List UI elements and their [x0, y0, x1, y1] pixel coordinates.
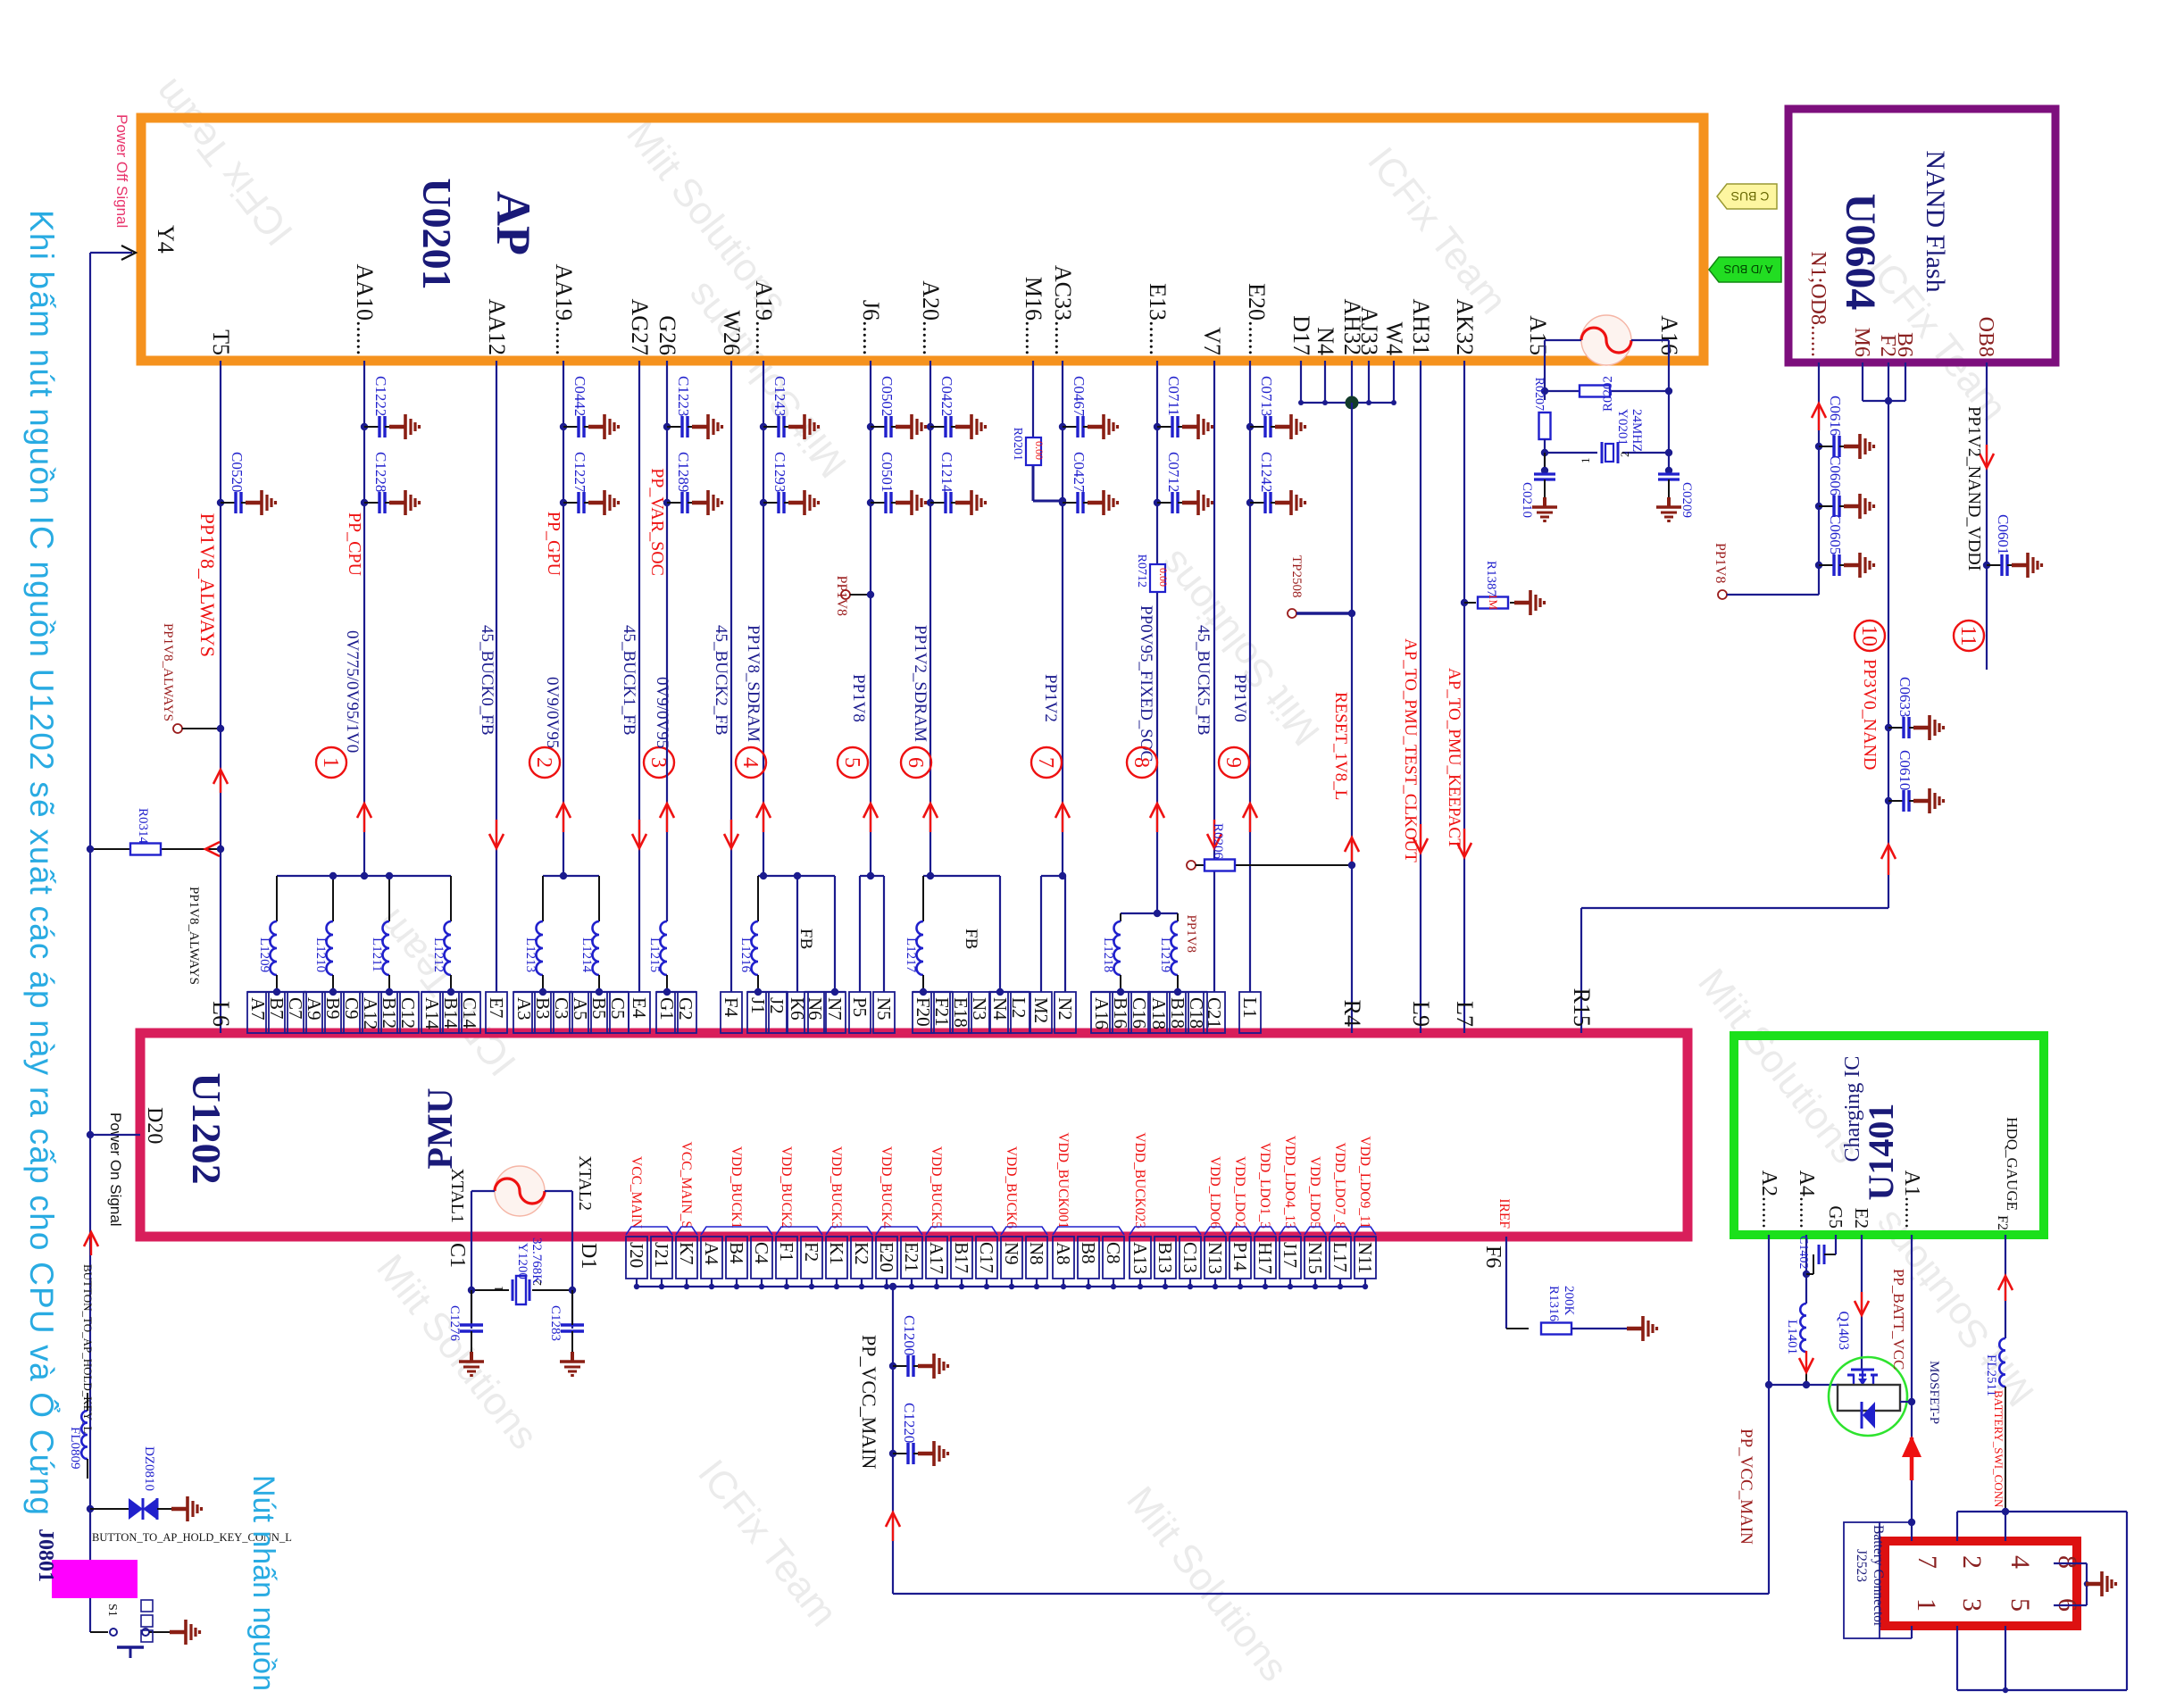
svg-text:L1210: L1210	[313, 937, 328, 972]
svg-text:L1209: L1209	[257, 937, 271, 972]
svg-text:C0210: C0210	[1520, 482, 1534, 518]
AP pin E13	[1145, 283, 1171, 355]
PMU pins A9 B9 C9	[304, 988, 363, 1033]
svg-text:VDD_LDO2: VDD_LDO2	[1232, 1156, 1247, 1229]
svg-text:A19......: A19......	[751, 280, 777, 355]
red arrow down	[1855, 1292, 1869, 1315]
capacitor C0601	[1983, 514, 2042, 578]
PMU pin XTAL1	[447, 1168, 467, 1223]
wire Power On Signal stub to PMU D20	[87, 1131, 140, 1138]
PMU pin R15	[1569, 988, 1595, 1027]
svg-text:F2: F2	[1995, 1215, 2010, 1230]
battery pin 3	[1957, 1598, 1987, 1612]
charger pin A2	[1757, 1171, 1780, 1229]
svg-text:PP1V2_NAND_VDDI: PP1V2_NAND_VDDI	[1964, 406, 1984, 571]
wire PP_VCC_MAIN rail	[637, 1286, 1365, 1287]
circled 1	[316, 747, 346, 778]
PMU pin L6	[208, 1001, 234, 1027]
red arrow	[1055, 804, 1070, 832]
svg-text:G5: G5	[1825, 1205, 1846, 1229]
node PP1V8 stub right	[1713, 543, 1819, 599]
svg-text:C1: C1	[446, 1243, 469, 1268]
svg-text:A15: A15	[1525, 315, 1551, 355]
svg-text:K1: K1	[826, 1242, 847, 1265]
svg-text:C1289: C1289	[675, 452, 692, 492]
red arrow	[1345, 837, 1359, 866]
PMU pin C4	[751, 1237, 772, 1289]
AP pin Y4	[153, 225, 179, 254]
PMU pin F2	[801, 1237, 822, 1289]
svg-text:R0201: R0201	[1011, 428, 1024, 461]
wire BUCK1 rail	[543, 872, 599, 879]
wire pin8 pin6 to ground	[2054, 1563, 2100, 1605]
svg-text:AG27: AG27	[627, 298, 653, 355]
label 0V9/0V95	[653, 677, 671, 748]
AP pin AK32	[1452, 298, 1478, 355]
svg-text:L1216: L1216	[738, 937, 753, 973]
AP pin N4	[1313, 327, 1338, 355]
svg-text:Y0201: Y0201	[1615, 409, 1630, 446]
svg-text:AP_TO_PMU_KEEPACT: AP_TO_PMU_KEEPACT	[1445, 668, 1463, 849]
capacitor C0610	[1885, 750, 1944, 813]
svg-text:3: 3	[1957, 1598, 1987, 1612]
inductor L1217	[904, 876, 923, 992]
svg-text:0V9/0V95: 0V9/0V95	[543, 677, 562, 748]
svg-text:C1222: C1222	[372, 376, 389, 416]
svg-text:PP1V8: PP1V8	[1713, 543, 1728, 583]
svg-text:L17: L17	[1330, 1242, 1351, 1272]
PMU pin M2	[1030, 992, 1052, 1033]
battery pin 1	[1912, 1598, 1941, 1612]
ground	[1514, 590, 1545, 615]
svg-text:K7: K7	[676, 1242, 697, 1265]
svg-text:E20: E20	[876, 1242, 897, 1272]
wire 45_BUCK5_FB V7 to C21	[1213, 361, 1215, 992]
svg-text:AJ33: AJ33	[1356, 306, 1382, 355]
svg-text:C0712: C0712	[1165, 452, 1182, 492]
wire PP1V2_SDRAM A20	[929, 361, 931, 876]
capacitor C0467	[1059, 376, 1118, 439]
svg-text:PP_GPU: PP_GPU	[544, 512, 563, 577]
PMU pin E7	[486, 992, 507, 1033]
wire A16	[1631, 340, 1669, 471]
svg-text:A17: A17	[926, 1242, 947, 1274]
svg-text:A4: A4	[701, 1242, 722, 1265]
red arrow	[1881, 845, 1896, 875]
svg-text:PP1V8_ALWAYS: PP1V8_ALWAYS	[196, 513, 219, 657]
svg-text:9: 9	[1221, 757, 1245, 768]
svg-text:4: 4	[738, 757, 762, 768]
red arrow	[213, 770, 228, 793]
svg-text:Q1403: Q1403	[1836, 1311, 1851, 1350]
circled 9	[1219, 747, 1249, 778]
PMU pin E18	[950, 992, 971, 1033]
label BATTERY_SWI_CONN	[1992, 1390, 2005, 1508]
svg-text:1: 1	[1912, 1598, 1941, 1612]
svg-text:2: 2	[1618, 452, 1631, 458]
svg-text:R0202: R0202	[1601, 376, 1615, 412]
svg-text:R1316: R1316	[1546, 1286, 1561, 1322]
PMU pin E20	[876, 1146, 897, 1289]
svg-text:Power On Signal: Power On Signal	[107, 1112, 124, 1227]
svg-text:L2: L2	[1008, 997, 1029, 1018]
inductor L1215	[647, 921, 667, 992]
svg-text:R0712: R0712	[1135, 554, 1148, 587]
PMU pin N9	[1001, 1146, 1022, 1289]
svg-text:TP2508: TP2508	[1289, 555, 1304, 598]
red arrow up	[1998, 1276, 2013, 1301]
charger pin F2 HDQ_GAUGE	[1995, 1117, 2021, 1230]
ground	[1656, 497, 1681, 521]
connector J2523 label box	[1844, 1522, 1912, 1638]
svg-text:PP1V8: PP1V8	[849, 674, 868, 722]
svg-text:AP_TO_PMU_TEST_CLKOUT: AP_TO_PMU_TEST_CLKOUT	[1401, 638, 1420, 862]
red arrow	[724, 820, 738, 848]
svg-text:45_BUCK0_FB: 45_BUCK0_FB	[478, 625, 496, 736]
svg-text:C1220: C1220	[901, 1403, 918, 1443]
AP pin AA19	[551, 263, 577, 355]
svg-text:C1228: C1228	[372, 452, 389, 492]
svg-text:PP0V95_FIXED_SOC: PP0V95_FIXED_SOC	[1137, 605, 1155, 762]
wire PP_VCC_MAIN drop	[889, 1235, 1769, 1594]
svg-text:C0605: C0605	[1827, 514, 1844, 554]
ground	[1532, 497, 1557, 521]
svg-text:FL0809: FL0809	[68, 1427, 82, 1470]
battery pin 7	[1913, 1555, 1942, 1569]
svg-text:RESET_1V8_L: RESET_1V8_L	[1331, 692, 1350, 800]
svg-text:Battery Connector: Battery Connector	[1871, 1525, 1886, 1628]
wire W4	[1393, 361, 1395, 403]
svg-text:VDD_LDO4_13: VDD_LDO4_13	[1282, 1136, 1297, 1229]
svg-text:R1387: R1387	[1484, 561, 1498, 597]
PMU pin A13	[1130, 1132, 1151, 1289]
PMU pins N6 N7	[804, 988, 846, 1033]
svg-text:G2: G2	[675, 997, 696, 1021]
svg-text:Khi bấm nút nguồn IC nguồn U12: Khi bấm nút nguồn IC nguồn U1202 sẽ xuất…	[23, 210, 62, 1516]
crystal circuit XTAL1 XTAL2 oscillator symbol	[471, 1166, 572, 1216]
red arrow	[1812, 404, 1826, 430]
AP pin W4	[1381, 321, 1407, 355]
wire D17	[1300, 361, 1302, 403]
red arrow	[1457, 829, 1471, 857]
PMU pin A4	[701, 1237, 722, 1289]
AP pin D17	[1288, 315, 1314, 355]
capacitor C0616	[1815, 396, 1874, 459]
svg-text:N2: N2	[1054, 997, 1076, 1021]
svg-text:E21: E21	[901, 1242, 922, 1272]
AP pin A20	[918, 280, 944, 355]
circled 3	[644, 747, 674, 778]
label 0V775/0V95/1V0	[343, 630, 362, 753]
PMU pin K6	[787, 992, 808, 1033]
svg-text:N9: N9	[1001, 1242, 1022, 1265]
switch S1 power button	[90, 1604, 184, 1658]
circled 2	[529, 747, 560, 778]
PMU pin A8	[1053, 1132, 1074, 1289]
label Nut nhan nguon	[246, 1475, 280, 1691]
wire AP_TO_PMU_KEEPACT AK32 to L7	[1463, 361, 1465, 1033]
svg-text:R0314: R0314	[136, 808, 150, 845]
svg-text:C0711: C0711	[1165, 376, 1182, 416]
red arrow	[632, 820, 646, 848]
svg-text:2: 2	[532, 757, 555, 768]
svg-text:4: 4	[2005, 1555, 2035, 1569]
label PP1V2_NAND_VDDI	[1964, 406, 1984, 571]
capacitor C0605	[1815, 514, 1874, 578]
wire P5-N5 rail	[860, 872, 884, 992]
svg-text:L6: L6	[208, 1001, 234, 1027]
svg-text:B17: B17	[951, 1242, 972, 1273]
wire mosfet to A1	[1900, 1398, 1915, 1405]
svg-text:C21: C21	[1204, 997, 1225, 1029]
battery pin 6	[2053, 1598, 2082, 1612]
svg-text:VDD_BUCK6: VDD_BUCK6	[1004, 1146, 1019, 1229]
svg-text:L7: L7	[1452, 1001, 1478, 1027]
wire PP1V8_SDRAM A19	[763, 361, 764, 876]
svg-text:OB8: OB8	[1974, 317, 1997, 357]
svg-text:T5: T5	[208, 329, 234, 355]
svg-text:VCC_MAIN: VCC_MAIN	[629, 1156, 644, 1229]
PMU pin K2	[851, 1237, 872, 1289]
ground	[459, 1352, 484, 1376]
svg-text:8: 8	[1130, 757, 1153, 768]
svg-text:D1: D1	[577, 1243, 600, 1269]
wire N4	[1324, 361, 1326, 403]
red arrow	[1150, 804, 1164, 832]
charger pin G5	[1825, 1205, 1846, 1229]
capacitor C0502	[867, 376, 926, 439]
svg-text:PP1V8_ALWAYS: PP1V8_ALWAYS	[161, 623, 175, 721]
svg-text:U0604: U0604	[1837, 194, 1884, 311]
AP pin W26	[719, 310, 745, 355]
label 45_BUCK0_FB	[478, 625, 496, 736]
capacitor C0209	[1658, 467, 1694, 518]
red arrow down	[1799, 1351, 1813, 1372]
inductor FL2511	[1984, 1338, 2005, 1512]
resistor R1387 1M to ground	[1461, 561, 1529, 611]
svg-text:M2: M2	[1030, 997, 1052, 1023]
svg-text:PP_VAR_SOC: PP_VAR_SOC	[647, 468, 667, 576]
label PP1V8_ALWAYS lower	[187, 887, 201, 985]
ground	[2086, 1571, 2116, 1596]
svg-text:E7: E7	[486, 997, 507, 1018]
label PP1V0	[1230, 674, 1249, 722]
NAND pin N1;OD8	[1806, 251, 1830, 357]
svg-text:C1402: C1402	[1796, 1236, 1810, 1269]
svg-text:5: 5	[840, 757, 863, 768]
wire F2 PP3V0_NAND	[1581, 362, 1892, 1033]
PMU pin K7	[676, 1142, 697, 1290]
circled 7	[1031, 747, 1062, 778]
svg-text:L1219: L1219	[1158, 937, 1172, 972]
svg-text:L1215: L1215	[647, 937, 662, 972]
svg-text:DZ0810: DZ0810	[142, 1446, 156, 1491]
svg-text:A4......: A4......	[1795, 1171, 1818, 1229]
svg-text:11: 11	[1956, 625, 1980, 646]
svg-text:PP1V8: PP1V8	[1184, 914, 1198, 953]
test point TP2508	[1288, 555, 1355, 618]
label PP0V95_FIXED_SOC	[1137, 605, 1155, 762]
crystal Y0201 24MHZ	[1541, 409, 1672, 463]
svg-text:FB: FB	[962, 929, 980, 949]
svg-text:M16......: M16......	[1021, 277, 1046, 355]
svg-text:C BUS: C BUS	[1731, 189, 1770, 204]
svg-text:J2523: J2523	[1854, 1549, 1869, 1582]
svg-text:BATTERY_SWI_CONN: BATTERY_SWI_CONN	[1992, 1390, 2005, 1508]
svg-text:0V9/0V95: 0V9/0V95	[653, 677, 671, 748]
capacitor C1223	[663, 376, 722, 439]
AP pin G26	[654, 315, 680, 355]
svg-text:N15: N15	[1305, 1242, 1326, 1274]
svg-text:C1227: C1227	[571, 452, 588, 493]
svg-text:C8: C8	[1103, 1242, 1124, 1264]
svg-text:E13......: E13......	[1145, 283, 1171, 355]
inductor FL0809	[68, 1393, 88, 1479]
IC U0201 AP application processor box	[141, 118, 1704, 361]
svg-text:VDD_LDO1_3: VDD_LDO1_3	[1257, 1143, 1272, 1229]
wire 45_BUCK1_FB AG27 to E4	[638, 361, 640, 992]
inductor L1219	[1158, 913, 1178, 992]
wire PP_VAR_SOC G26	[666, 361, 668, 921]
svg-text:F1: F1	[776, 1242, 797, 1262]
wire AP_TO_PMU_TEST_CLKOUT AH31 to L9	[1420, 361, 1421, 1033]
AP pin AC33	[1050, 265, 1076, 355]
svg-text:L1401: L1401	[1785, 1320, 1799, 1354]
svg-text:R0207: R0207	[1532, 378, 1546, 411]
svg-text:C0616: C0616	[1827, 396, 1844, 436]
svg-text:P5: P5	[849, 997, 871, 1017]
svg-text:VDD_LDO7_8: VDD_LDO7_8	[1332, 1143, 1347, 1229]
wire N7 drop	[834, 876, 836, 992]
svg-text:VCC_MAIN_S: VCC_MAIN_S	[679, 1142, 694, 1229]
wire A4 to L1401	[1803, 1235, 1810, 1304]
svg-text:32.768K: 32.768K	[529, 1237, 544, 1284]
svg-text:PP1V2: PP1V2	[1041, 674, 1060, 722]
svg-text:N13: N13	[1205, 1242, 1226, 1274]
capacitor C1293	[760, 452, 819, 515]
label Power On Signal	[107, 1112, 124, 1227]
svg-text:B8: B8	[1078, 1242, 1099, 1264]
svg-text:N1;OD8......: N1;OD8......	[1806, 251, 1830, 357]
svg-text:L1: L1	[1239, 997, 1261, 1018]
label power key chinese	[141, 1600, 153, 1642]
wire BUTTON_TO_AP_HOLD_KEY_L vertical	[89, 253, 91, 1632]
label PP_VCC_MAIN	[858, 1335, 880, 1469]
svg-text:PP1V0: PP1V0	[1230, 674, 1249, 722]
capacitor C0711	[1154, 376, 1213, 439]
resistor R0207	[1532, 378, 1551, 471]
svg-text:AA12: AA12	[484, 298, 510, 355]
svg-text:C1214: C1214	[938, 452, 955, 493]
svg-text:N5: N5	[873, 997, 895, 1021]
svg-text:MOSFET-P: MOSFET-P	[1927, 1361, 1941, 1424]
red arrow on button wire	[84, 1232, 98, 1255]
svg-text:PP1V2_SDRAM: PP1V2_SDRAM	[911, 625, 929, 742]
svg-text:PMU: PMU	[420, 1087, 460, 1169]
svg-text:C0501: C0501	[879, 452, 896, 492]
svg-text:1: 1	[493, 1286, 506, 1292]
svg-text:L1217: L1217	[904, 937, 918, 973]
ground	[171, 1496, 202, 1521]
svg-text:C1242: C1242	[1258, 452, 1275, 492]
AP pin E20	[1244, 283, 1270, 355]
label PP_VAR_SOC	[647, 468, 667, 576]
svg-text:K2: K2	[851, 1242, 872, 1265]
svg-text:C16: C16	[1129, 997, 1150, 1029]
capacitor C1228	[361, 452, 420, 515]
svg-text:L1213: L1213	[523, 937, 538, 972]
AP pin A16	[1656, 315, 1682, 355]
svg-text:C1293: C1293	[771, 452, 788, 492]
wire PP1V0 E20 to L1	[1249, 361, 1251, 992]
red arrow	[1243, 804, 1257, 832]
red arrow down	[1980, 445, 1994, 468]
svg-text:A8: A8	[1053, 1242, 1074, 1265]
label PP1V2_SDRAM	[911, 625, 929, 742]
PMU pins N4 L2	[989, 988, 1029, 1033]
oscillator symbol in AP	[1581, 315, 1631, 365]
svg-text:NAND Flash: NAND Flash	[1921, 150, 1950, 292]
svg-text:VDD_BUCK3: VDD_BUCK3	[829, 1146, 844, 1229]
svg-text:C0713: C0713	[1258, 376, 1275, 416]
inductor L1218	[1101, 913, 1121, 992]
resistor R0206 PP1V8	[1184, 823, 1355, 953]
label PP1V2	[1041, 674, 1060, 722]
svg-text:L9: L9	[1408, 1001, 1434, 1027]
wire M6	[1863, 362, 1905, 401]
ground	[170, 1620, 200, 1645]
svg-text:C14: C14	[459, 997, 480, 1029]
wire RESET_1V8_L	[1351, 403, 1353, 1033]
svg-text:E20......: E20......	[1244, 283, 1270, 355]
NAND pin M6	[1850, 328, 1873, 357]
svg-text:5: 5	[2005, 1598, 2035, 1612]
PMU pin N2	[1054, 992, 1076, 1033]
AP pin A15	[1525, 315, 1551, 355]
svg-text:Power Off Signal: Power Off Signal	[113, 114, 130, 228]
svg-text:AA19......: AA19......	[551, 263, 577, 355]
label PP_BATT_VCC	[1890, 1269, 1907, 1370]
svg-text:A1......: A1......	[1900, 1171, 1923, 1229]
circled 5	[838, 747, 868, 778]
resistor R0314	[87, 808, 224, 855]
svg-text:P14: P14	[1230, 1242, 1251, 1271]
IC U1202 PMU box	[140, 1033, 1688, 1237]
IC U0604 NAND Flash box	[1788, 109, 2055, 362]
label AP_TO_PMU_KEEPACT	[1445, 668, 1463, 849]
PMU pins G1 G2	[656, 988, 696, 1033]
svg-text:AA10......: AA10......	[352, 263, 378, 355]
PMU pin B8	[1078, 1237, 1099, 1289]
label PP1V8	[849, 674, 868, 722]
AP pin AA12	[484, 298, 510, 355]
svg-text:C0502: C0502	[879, 376, 896, 416]
charger pin E2	[1851, 1208, 1872, 1229]
PMU pin N15	[1305, 1156, 1326, 1289]
PMU pin R4	[1339, 1000, 1365, 1027]
svg-text:VDD_BUCK5: VDD_BUCK5	[929, 1146, 944, 1229]
red arrow	[1413, 824, 1428, 853]
wire B6	[1905, 362, 1906, 401]
svg-text:F6: F6	[1481, 1246, 1505, 1268]
PMU pin J20	[626, 1156, 647, 1289]
svg-text:L1218: L1218	[1101, 937, 1115, 972]
connector J2523 battery connector box	[1885, 1541, 2077, 1626]
battery pin 5	[2005, 1598, 2035, 1612]
wire PP_GPU AA19	[563, 361, 564, 876]
resistor R0202	[1541, 376, 1672, 412]
capacitor C1227	[560, 452, 619, 515]
